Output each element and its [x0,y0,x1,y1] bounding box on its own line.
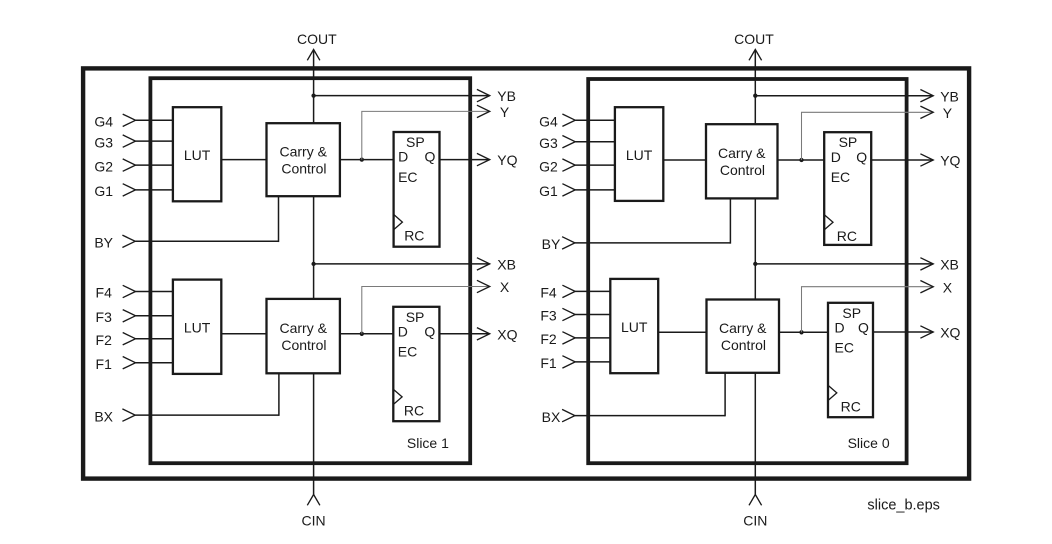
svg-text:Q: Q [425,149,436,165]
slice 1 input arrowhead F4 [123,285,136,297]
slice 0 wire BX riser to lower carry [724,373,726,417]
svg-text:LUT: LUT [184,147,211,163]
flip-flop slice 0 Y (upper) clock edge marker [824,215,833,230]
slice 0 wire X output (thin) [802,287,934,333]
slice 1 wire lower carry to X flip-flop D [340,333,393,335]
slice 1 wire COUT to upper carry [313,50,315,124]
svg-text:COUT: COUT [297,31,337,47]
svg-text:EC: EC [398,344,417,360]
svg-text:LUT: LUT [621,319,648,335]
svg-text:F3: F3 [540,308,557,324]
svg-text:CIN: CIN [743,512,767,528]
slice 1 input arrowhead G4 [123,114,136,126]
flip-flop slice 0 Y (upper) box [824,132,871,245]
svg-text:Control: Control [281,337,326,353]
svg-text:BX: BX [542,409,561,425]
slice 1 input arrowhead BY [122,235,135,247]
slice 0 wire F2 to lower LUT [575,337,610,339]
slice 1 output arrowhead YB [477,89,490,101]
slice 0 output arrowhead XB [920,258,933,270]
svg-text:EC: EC [398,169,417,185]
slice 0 input arrowhead G3 [562,136,575,148]
slice 1 COUT arrowhead [307,50,320,61]
slice 1 wire lower carry to CIN [313,373,315,494]
slice 0 input arrowhead F1 [562,356,575,368]
slice 1 wire XQ output [439,333,489,335]
svg-text:G1: G1 [94,183,113,199]
slice 1 wire BY horizontal [135,240,278,242]
svg-text:YQ: YQ [497,152,517,168]
slice 1 input arrowhead G1 [123,184,136,196]
svg-text:G3: G3 [539,135,558,151]
svg-text:COUT: COUT [734,31,774,47]
svg-text:Carry &: Carry & [719,320,767,336]
svg-text:Carry &: Carry & [279,320,327,336]
slice 0 wire Y output (thin) [802,112,934,160]
slice 0 input arrowhead F4 [562,285,575,297]
slice 0 wire G4 to upper LUT [575,119,615,121]
slice 1 wire G4 to upper LUT [136,119,173,121]
slice 1 junction dot on Y D wire [360,157,364,161]
svg-text:Control: Control [720,162,765,178]
slice 1 junction dot YB on carry chain [311,93,315,97]
slice 1 boundary box [150,78,470,463]
svg-text:F3: F3 [96,309,113,325]
svg-text:EC: EC [831,169,850,185]
slice 1 wire BX riser to lower carry [278,373,280,416]
svg-text:Carry &: Carry & [718,145,766,161]
svg-text:Y: Y [943,105,953,121]
slice 1 output arrowhead XQ [477,328,490,340]
slice 0 wire lower carry to CIN [754,373,756,495]
svg-text:LUT: LUT [184,319,211,335]
slice 1 wire upper LUT to upper carry [221,159,266,161]
slice 1 output arrowhead Y [477,105,490,117]
slice 0 input arrowhead F2 [562,332,575,344]
slice 1 lower LUT (F) box [173,280,221,374]
slice 1 output arrowhead X [477,280,490,292]
slice 1 wire upper carry to Y flip-flop D [340,159,394,161]
slice 0 wire XQ output [873,331,933,333]
svg-text:Control: Control [281,161,326,177]
slice 0 wire BY riser to upper carry [729,198,731,243]
svg-text:LUT: LUT [626,147,653,163]
slice 1 input arrowhead F3 [123,310,136,322]
slice 1 wire G2 to upper LUT [136,164,173,166]
slice 1 wire YB output [314,95,490,97]
flip-flop slice 1 X (lower) clock edge marker [393,389,402,404]
flip-flop slice 0 X (lower) box [828,303,873,417]
svg-text:RC: RC [841,399,861,415]
slice 0 output arrowhead XQ [920,326,933,338]
slice 0 wire COUT to upper carry [754,50,756,125]
slice 1 wire F1 to lower LUT [136,362,173,364]
svg-text:Slice 1: Slice 1 [407,435,449,451]
svg-text:RC: RC [404,228,424,244]
slice 0 wire G1 to upper LUT [575,189,615,191]
svg-text:BY: BY [94,235,113,251]
slice 0 wire G3 to upper LUT [575,141,615,143]
slice 1 wire Y output (thin) [362,111,490,159]
svg-text:X: X [500,279,510,295]
svg-text:Control: Control [721,337,766,353]
flip-flop slice 1 X (lower) box [393,307,439,421]
svg-text:F4: F4 [96,285,113,301]
slice 0 wire upper carry to Y flip-flop D [778,159,825,161]
slice 0 wire BY horizontal [575,242,731,244]
svg-text:XB: XB [940,257,959,273]
slice 0 lower Carry &amp; Control box [707,300,780,373]
svg-text:BY: BY [542,236,561,252]
svg-text:F2: F2 [540,331,557,347]
svg-text:Q: Q [856,149,867,165]
slice 0 junction dot XB on carry chain [753,262,757,266]
slice 0 COUT arrowhead [749,50,762,61]
flip-flop slice 1 Y (upper) box [394,132,440,247]
slice 0 wire XB output [755,263,933,265]
slice 0 output arrowhead YB [920,90,933,102]
slice 0 boundary box [588,79,906,463]
svg-text:D: D [398,149,408,165]
slice 1 wire F4 to lower LUT [136,291,173,293]
svg-text:F4: F4 [540,285,557,301]
slice 0 output arrowhead X [920,281,933,293]
svg-text:Q: Q [424,323,435,339]
svg-text:D: D [398,323,408,339]
slice 1 CIN arrowhead [307,495,320,506]
svg-text:XQ: XQ [497,326,517,342]
svg-text:XQ: XQ [940,325,960,341]
slice 1 wire F2 to lower LUT [136,338,173,340]
svg-text:SP: SP [406,134,425,150]
slice 0 wire F3 to lower LUT [575,314,610,316]
slice 0 wire carry chain between carry boxes [754,198,756,299]
slice 0 CIN arrowhead [749,495,762,506]
slice 1 input arrowhead G3 [123,135,136,147]
svg-text:YB: YB [497,88,516,104]
slice 1 wire carry chain between carry boxes [313,196,315,299]
slice 1 input arrowhead G2 [123,159,136,171]
slice 0 input arrowhead BY [562,237,575,249]
slice 0 wire G2 to upper LUT [575,164,615,166]
svg-text:YQ: YQ [940,153,960,169]
slice 0 upper LUT (G) box [615,107,663,201]
slice 0 wire lower LUT to lower carry [658,331,706,333]
slice 1 output arrowhead YQ [477,153,490,165]
svg-text:D: D [831,149,841,165]
svg-text:BX: BX [94,408,113,424]
svg-text:D: D [835,319,845,335]
slice 0 upper Carry &amp; Control box [706,124,778,198]
slice 0 input arrowhead G1 [562,184,575,196]
outer CLB boundary box [83,68,969,478]
slice 1 wire BX horizontal [135,414,279,416]
slice 0 wire F4 to lower LUT [575,290,610,292]
svg-text:G2: G2 [94,158,113,174]
slice 0 junction dot YB on carry chain [753,94,757,98]
svg-text:RC: RC [837,228,857,244]
svg-text:G4: G4 [94,114,113,130]
svg-text:RC: RC [404,403,424,419]
slice 0 lower LUT (F) box [610,279,658,373]
slice 1 junction dot XB on carry chain [311,262,315,266]
svg-text:SP: SP [406,309,425,325]
slice 0 wire YB output [755,95,933,97]
slice 1 junction dot on X D wire [360,332,364,336]
slice 0 output arrowhead YQ [920,154,933,166]
slice 1 input arrowhead F1 [123,357,136,369]
slice 1 lower Carry &amp; Control box [267,299,340,373]
slice 1 input arrowhead F2 [123,333,136,345]
slice 1 wire BY riser to upper carry [278,196,280,242]
slice 1 wire lower LUT to lower carry [221,333,266,335]
svg-text:G4: G4 [539,113,558,129]
svg-text:F1: F1 [96,356,113,372]
svg-text:G1: G1 [539,183,558,199]
slice 1 wire XB output [314,263,490,265]
svg-text:Slice 0: Slice 0 [848,435,890,451]
slice 1 wire X output (thin) [362,287,490,334]
slice 1 input arrowhead BX [122,409,135,421]
slice 0 input arrowhead G2 [562,159,575,171]
svg-text:SP: SP [842,305,861,321]
slice 1 upper Carry &amp; Control box [267,123,340,196]
slice 1 wire G1 to upper LUT [136,189,173,191]
slice 1 output arrowhead XB [477,258,490,270]
slice 0 wire lower carry to X flip-flop D [779,331,828,333]
slice 1 wire YQ output [440,159,490,161]
svg-text:X: X [943,279,953,295]
svg-text:Q: Q [858,319,869,335]
slice 0 wire BX horizontal [575,415,725,417]
svg-text:G3: G3 [94,134,113,150]
svg-text:Y: Y [500,104,510,120]
svg-text:slice_b.eps: slice_b.eps [867,498,940,514]
svg-text:YB: YB [940,88,959,104]
svg-text:F1: F1 [540,355,557,371]
svg-text:XB: XB [497,257,516,273]
slice 0 input arrowhead F3 [562,308,575,320]
svg-text:F2: F2 [96,332,113,348]
svg-text:CIN: CIN [302,512,326,528]
svg-text:EC: EC [835,340,854,356]
slice 0 input arrowhead G4 [562,114,575,126]
slice 1 upper LUT (G) box [173,107,221,201]
slice 0 junction dot on X D wire [799,330,803,334]
svg-text:Carry &: Carry & [279,144,327,160]
flip-flop slice 1 Y (upper) clock edge marker [394,214,403,229]
slice 0 output arrowhead Y [920,106,933,118]
slice 0 wire F1 to lower LUT [575,361,610,363]
slice 1 wire G3 to upper LUT [136,140,173,142]
svg-text:G2: G2 [539,158,558,174]
flip-flop slice 0 X (lower) clock edge marker [828,385,837,400]
slice 0 wire YQ output [871,159,933,161]
slice 0 input arrowhead BX [562,409,575,421]
slice 0 wire upper LUT to upper carry [663,159,706,161]
svg-text:SP: SP [839,134,858,150]
slice 1 wire F3 to lower LUT [136,315,173,317]
slice 0 junction dot on Y D wire [799,158,803,162]
